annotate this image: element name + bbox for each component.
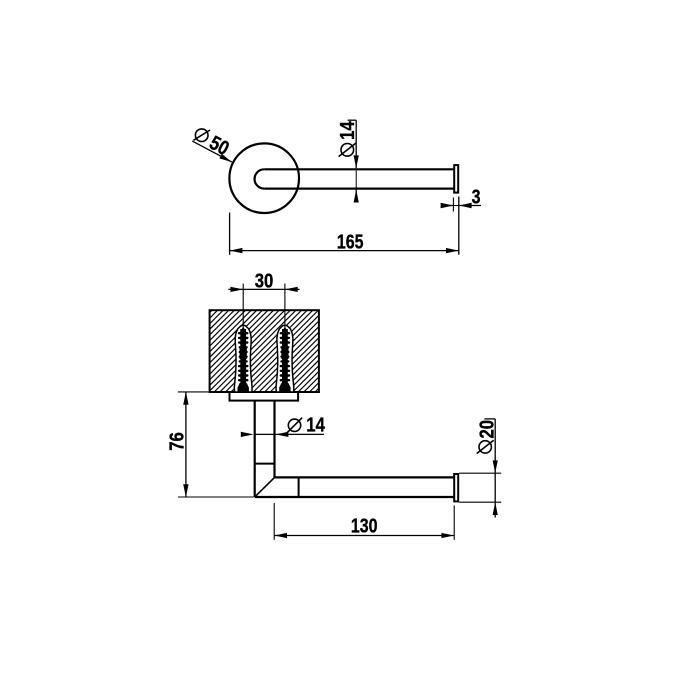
svg-text:14: 14 (337, 121, 359, 140)
svg-text:76: 76 (166, 432, 188, 451)
svg-text:30: 30 (255, 271, 274, 293)
svg-text:130: 130 (351, 515, 378, 537)
svg-text:20: 20 (477, 420, 499, 439)
svg-text:3: 3 (472, 187, 481, 209)
svg-text:165: 165 (337, 232, 364, 254)
svg-text:14: 14 (306, 415, 325, 437)
